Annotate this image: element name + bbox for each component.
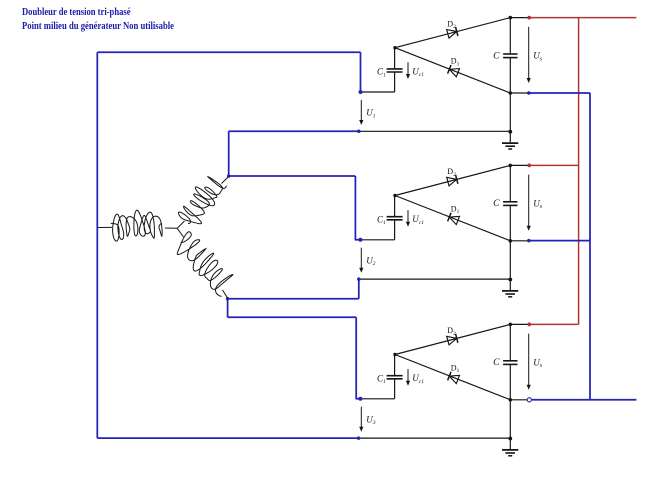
wire: generator neutral to winding L3 <box>177 228 183 237</box>
wire: winding L1 to phase1 bus <box>98 226 112 228</box>
wire: top node stub to positive bus (doubler 3) <box>510 323 527 325</box>
svg-text:D2: D2 <box>447 326 456 337</box>
node: rail-ground junction (doubler 3) <box>508 437 512 441</box>
svg-text:Doubleur de tension tri-phasé: Doubleur de tension tri-phasé <box>22 7 131 18</box>
wire: C1 down to input corner (doubler 1) <box>394 72 396 92</box>
wire: phase3 drop <box>227 299 229 318</box>
diode D2 (doubler 3) <box>447 336 457 345</box>
capacitor C (doubler 1) <box>503 53 517 55</box>
wire: anode node down to C1 (doubler 3) <box>394 355 396 376</box>
node: doubler3 rail tap <box>357 436 361 440</box>
ground (doubler 3) <box>502 449 518 451</box>
svg-text:C1: C1 <box>377 214 386 226</box>
svg-text:C: C <box>493 51 500 61</box>
wire: phase1 bottom run to doubler3 rail <box>97 437 358 439</box>
node: bottom output junction (doubler 3) <box>509 398 513 402</box>
svg-text:U2: U2 <box>366 255 376 267</box>
wire: return rail to ground (doubler 3) <box>359 437 511 439</box>
winding L2 (upper-right coil) <box>178 177 226 224</box>
node: doubler1 rail tap <box>357 130 361 134</box>
node: positive output tap 1 <box>527 16 531 20</box>
wire: doubler1 return rail (blue from phase2) <box>229 130 359 132</box>
wire: C1 down to input corner (doubler 3) <box>394 379 396 399</box>
capacitor C (doubler 3) <box>503 360 517 362</box>
capacitor C (doubler 2) <box>503 201 517 203</box>
wire: capacitor C to bottom node (doubler 2) <box>509 206 511 241</box>
wire: input node to C1 stem (doubler 1) <box>360 91 394 93</box>
wire: winding L2 to phase2 terminal <box>222 177 229 184</box>
ground (doubler 1) <box>502 142 518 144</box>
winding L3 (lower-right coil) <box>177 232 233 297</box>
ground (doubler 2) <box>502 290 518 292</box>
node: rail-ground junction (doubler 2) <box>508 278 512 282</box>
wire: return rail to ground (doubler 1) <box>359 130 511 132</box>
arrow Uc1 (doubler 1) <box>407 62 409 75</box>
diode D2 (doubler 1) <box>447 30 457 38</box>
wire: generator neutral to winding L2 <box>177 221 184 228</box>
node: negative output tap 1 <box>527 91 531 95</box>
svg-text:C: C <box>493 199 500 209</box>
capacitor C1 (doubler 3) <box>387 375 403 377</box>
wire: bottom node stub to negative bus (doubler 1) <box>510 92 527 94</box>
node: doubler3 input <box>358 397 362 401</box>
svg-text:Uc1: Uc1 <box>412 66 424 78</box>
wire: return rail to ground (doubler 2) <box>359 278 511 280</box>
arrow Uc1 (doubler 2) <box>407 210 409 223</box>
wire: phase3 run at y298 <box>228 298 359 300</box>
wire: capacitor C to bottom node (doubler 3) <box>509 365 511 400</box>
winding L1 (left, horizontal coil) <box>111 210 162 241</box>
svg-text:Us: Us <box>533 357 543 369</box>
diode D1 (doubler 2) <box>449 216 459 224</box>
svg-text:C: C <box>493 358 500 368</box>
wire: capacitor C to bottom node (doubler 1) <box>509 58 511 93</box>
arrow Us (doubler 1) <box>528 27 530 80</box>
svg-text:D2: D2 <box>447 19 456 30</box>
svg-text:D1: D1 <box>451 204 460 215</box>
wire: negative bus stub doubler1 <box>527 92 590 94</box>
node: bottom output junction (doubler 1) <box>509 91 513 95</box>
wire: anode node to D2 (doubler 2) <box>395 165 510 195</box>
wire: negative bus bottom run <box>532 399 637 401</box>
wire: phase2 riser up to doubler1 rail <box>228 131 230 176</box>
arrow Us (doubler 2) <box>528 175 530 228</box>
wire: negative bus stub doubler2 <box>527 240 590 242</box>
node: bottom output junction (doubler 2) <box>509 239 513 243</box>
wire: phase1 left vertical bus <box>96 52 98 438</box>
node: anode junction (doubler 2) <box>393 194 396 197</box>
svg-text:U1: U1 <box>366 108 376 120</box>
node: negative output tap 2 <box>527 239 531 243</box>
wire: negative bus vertical <box>589 93 591 400</box>
node: anode junction (doubler 1) <box>393 46 396 49</box>
node: positive output tap 3 <box>527 323 531 327</box>
node: positive output tap 2 <box>527 164 531 168</box>
wire: positive bus stub doubler2 <box>527 164 578 166</box>
diode D1 (doubler 1) <box>449 69 459 77</box>
wire: top node down to capacitor C (doubler 2) <box>509 165 511 201</box>
wire: phase1 riser into doubler1 input <box>360 52 362 92</box>
wire: phase1 top run <box>97 51 360 53</box>
node: top output junction (doubler 1) <box>509 16 513 20</box>
wire: winding L3 to phase3 terminal <box>223 290 228 298</box>
svg-text:D1: D1 <box>451 363 460 374</box>
node: doubler1 input <box>359 90 363 94</box>
node: top output junction (doubler 3) <box>509 323 513 327</box>
arrow Us (doubler 3) <box>528 334 530 387</box>
svg-text:Us: Us <box>533 198 543 210</box>
node: rail-ground junction (doubler 1) <box>508 130 512 134</box>
wire: bottom output node down to rail (doubler 3) <box>509 400 511 449</box>
wire: top node stub to positive bus (doubler 2) <box>510 164 527 166</box>
wire: bottom node stub to negative bus (doubler 2) <box>510 240 527 242</box>
diode D1 (doubler 3) <box>449 375 459 383</box>
node: top output junction (doubler 2) <box>509 164 513 168</box>
wire: D1 to output node (doubler 2) <box>395 196 510 241</box>
arrow Uc1 (doubler 3) <box>407 369 409 382</box>
node: phase3 terminal <box>226 297 230 301</box>
svg-text:C1: C1 <box>377 67 386 79</box>
svg-text:Us: Us <box>533 51 543 63</box>
wire: D1 to output node (doubler 1) <box>395 48 510 93</box>
wire: top node stub to positive bus (doubler 1) <box>510 17 527 19</box>
wire: anode node down to C1 (doubler 1) <box>394 48 396 69</box>
arrow U1 phase voltage (doubler 1) <box>360 100 362 122</box>
wire: positive bus vertical <box>578 18 580 325</box>
wire: input node to C1 stem (doubler 3) <box>360 398 394 400</box>
wire: bottom node stub to negative bus (doubler 3) <box>510 399 527 401</box>
wire: generator neutral to winding L1 <box>165 227 177 229</box>
svg-text:Uc1: Uc1 <box>412 214 424 226</box>
node: doubler2 input <box>358 238 362 242</box>
wire: top node down to capacitor C (doubler 3) <box>509 324 511 360</box>
capacitor C1 (doubler 2) <box>387 216 403 218</box>
wire: top node down to capacitor C (doubler 1) <box>509 18 511 54</box>
node: anode junction (doubler 3) <box>393 353 396 356</box>
wire: bottom output node down to rail (doubler 2) <box>509 241 511 290</box>
wire: input node to C1 stem (doubler 2) <box>360 239 394 241</box>
wire: C1 down to input corner (doubler 2) <box>394 220 396 240</box>
svg-text:Uc1: Uc1 <box>412 373 424 385</box>
wire: positive bus top run <box>527 17 636 19</box>
wire: phase3 riser up to doubler2 rail <box>358 279 360 299</box>
wire: phase3 riser into doubler3 input <box>356 317 360 399</box>
wire: anode node down to C1 (doubler 2) <box>394 196 396 217</box>
arrow U3 phase voltage (doubler 3) <box>360 407 362 429</box>
wire: phase2 riser into doubler2 input <box>355 176 360 240</box>
svg-text:D1: D1 <box>451 57 460 68</box>
wire: anode node to D2 (doubler 3) <box>395 324 510 354</box>
wire: bottom output node down to rail (doubler 1) <box>509 93 511 142</box>
svg-text:C1: C1 <box>377 373 386 385</box>
node: negative output terminal (open) <box>527 398 531 402</box>
node: doubler2 rail tap <box>357 277 361 281</box>
svg-text:D2: D2 <box>447 167 456 178</box>
wire: phase2 run to doubler2 <box>229 175 356 177</box>
diode D2 (doubler 2) <box>447 177 457 186</box>
wire: phase3 run at y317 <box>228 316 357 318</box>
capacitor C1 (doubler 1) <box>387 68 403 70</box>
wire: positive bus stub doubler3 <box>527 323 578 325</box>
wire: D1 to output node (doubler 3) <box>395 355 510 400</box>
node: phase2 terminal <box>227 174 231 178</box>
wire: anode node to D2 (doubler 1) <box>395 18 510 48</box>
arrow U2 phase voltage (doubler 2) <box>360 248 362 270</box>
svg-text:Point milieu du générateur Non: Point milieu du générateur Non utilisabl… <box>22 21 174 32</box>
svg-text:U3: U3 <box>366 414 376 426</box>
